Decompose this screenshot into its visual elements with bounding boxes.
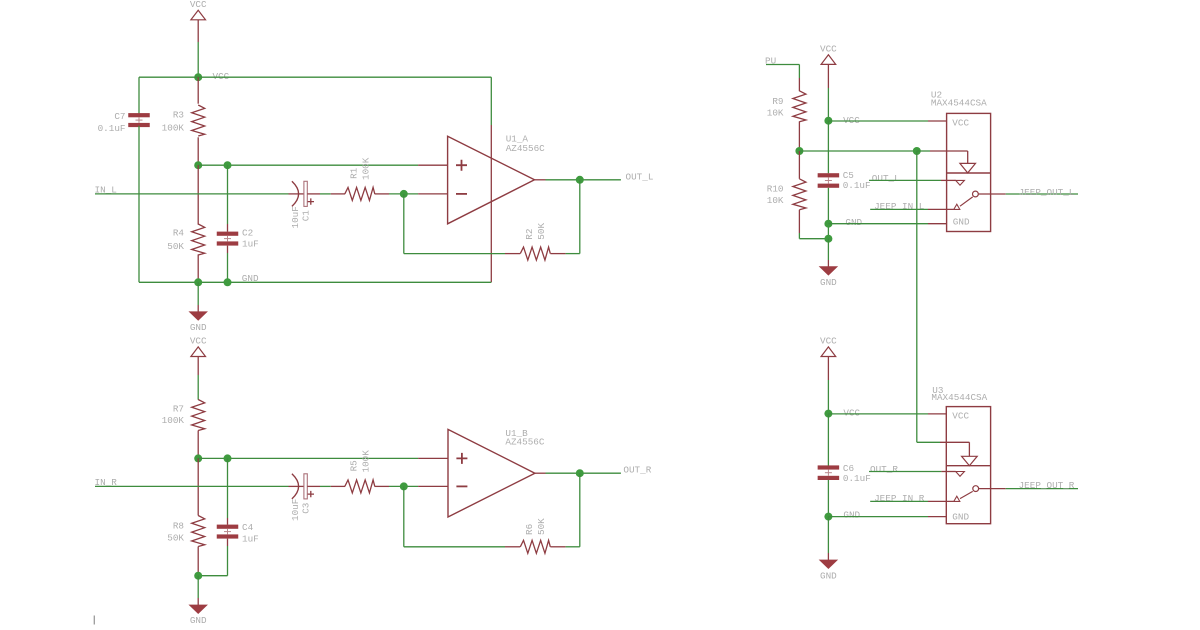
svg-text:GND: GND	[190, 322, 207, 333]
svg-text:OUT_L: OUT_L	[626, 171, 654, 182]
svg-text:GND: GND	[190, 615, 207, 626]
svg-text:VCC: VCC	[843, 407, 860, 418]
wire IN_L	[95, 193, 289, 195]
resistor R2	[505, 253, 520, 255]
wire control net	[799, 150, 916, 152]
resistor R8	[197, 458, 199, 515]
resistor R1	[331, 193, 345, 195]
resistor R6	[505, 546, 520, 548]
node R7/R8 junction	[194, 454, 202, 462]
wire C5 to GND junction	[827, 188, 829, 239]
wire rail to C5	[827, 121, 829, 174]
svg-text:R5: R5	[348, 460, 359, 471]
wire VCC top rail	[139, 76, 491, 78]
svg-text:R6: R6	[524, 524, 535, 535]
svg-text:100K: 100K	[162, 415, 185, 426]
svg-text:10K: 10K	[767, 108, 784, 119]
node GND junction B	[194, 572, 202, 580]
svg-text:C3: C3	[301, 503, 312, 514]
svg-text:100K: 100K	[162, 123, 185, 134]
wire V+ feed	[490, 77, 492, 125]
svg-text:C4: C4	[242, 522, 254, 533]
svg-text:C2: C2	[242, 228, 253, 239]
node GND pin junction U2	[824, 220, 832, 228]
svg-text:VCC: VCC	[952, 411, 969, 422]
cursor mark	[93, 616, 95, 625]
wire to non-inverting input B	[198, 457, 418, 459]
svg-text:R3: R3	[173, 109, 184, 120]
node C4 top junction	[224, 454, 232, 462]
svg-text:JEEP_OUT_R: JEEP_OUT_R	[1019, 480, 1075, 491]
pin arrow OUT_L	[956, 180, 965, 185]
wire PU to R9	[766, 64, 799, 66]
svg-text:50K: 50K	[167, 241, 184, 252]
wire VCC pin U3	[828, 413, 928, 415]
capacitor C5	[818, 173, 840, 177]
svg-text:0.1uF: 0.1uF	[843, 180, 871, 191]
node output junction B	[576, 469, 584, 477]
svg-text:GND: GND	[952, 512, 969, 523]
wire feedback bottom B	[404, 546, 505, 548]
svg-text:R9: R9	[772, 96, 783, 107]
svg-text:1uF: 1uF	[242, 239, 259, 250]
svg-text:MAX4544CSA: MAX4544CSA	[931, 392, 987, 403]
wire control bus down	[916, 151, 918, 442]
control arrow U3	[962, 456, 978, 465]
capacitor C7	[128, 113, 150, 117]
wire VCC rail U2	[827, 88, 829, 121]
switch throw arrow U2	[954, 204, 960, 209]
svg-text:JEEP_OUT_L: JEEP_OUT_L	[1019, 187, 1075, 198]
svg-text:0.1uF: 0.1uF	[843, 473, 871, 484]
resistor R7	[192, 400, 205, 431]
svg-text:R8: R8	[173, 521, 184, 532]
IC U3 box	[946, 407, 990, 524]
wire left rail upper	[138, 77, 140, 114]
ground symbol (lower left circuit)	[197, 576, 199, 598]
wire control into U2	[917, 150, 930, 152]
op-amp U1_A	[418, 193, 448, 195]
IC U2 box	[947, 113, 991, 231]
wire feedback down B	[403, 486, 405, 546]
wire to non-inverting input	[198, 164, 418, 166]
svg-text:1uF: 1uF	[242, 533, 259, 544]
svg-text:GND: GND	[820, 277, 837, 288]
capacitor C3 (polarized)	[289, 485, 304, 487]
svg-text:R7: R7	[173, 404, 184, 415]
svg-text:10K: 10K	[767, 195, 784, 206]
resistor R10	[798, 151, 800, 179]
wire GND bottom rail	[139, 281, 491, 283]
svg-text:GND: GND	[843, 509, 860, 520]
wire output OUT_L	[535, 179, 546, 181]
svg-text:R10: R10	[767, 184, 784, 195]
node output junction	[576, 176, 584, 184]
ground symbol (upper left circuit)	[197, 282, 199, 305]
wire JEEP_IN_R	[870, 500, 928, 502]
resistor R9	[798, 78, 800, 91]
svg-text:VCC: VCC	[190, 335, 207, 346]
wire OUT_R pin	[869, 471, 941, 473]
svg-text:R4: R4	[173, 228, 185, 239]
node control junction	[913, 147, 921, 155]
capacitor C1 (polarized)	[289, 193, 304, 195]
wire C6 to GND junction U3	[827, 480, 829, 517]
capacitor C6	[818, 465, 840, 469]
wire IN_R	[95, 485, 289, 487]
op-amp U1_B	[418, 485, 448, 487]
node GND pin junction U3	[824, 513, 832, 521]
wire control into U3	[917, 441, 940, 443]
svg-text:100K: 100K	[360, 450, 371, 473]
wire GND pin U3	[828, 516, 928, 518]
node VCC pin junction U3	[824, 410, 832, 418]
wire JEEP_IN_L	[870, 208, 928, 210]
svg-text:GND: GND	[845, 217, 862, 228]
capacitor C2	[227, 165, 229, 224]
ground symbol (U3)	[827, 517, 829, 553]
node inverting input junction B	[400, 482, 408, 490]
svg-text:MAX4544CSA: MAX4544CSA	[931, 98, 987, 109]
switch throw arrow U3	[954, 496, 960, 501]
svg-text:AZ4556C: AZ4556C	[506, 143, 545, 154]
node inverting input junction	[400, 190, 408, 198]
svg-text:GND: GND	[953, 217, 970, 228]
wire VCC pin U2	[828, 120, 928, 122]
svg-text:JEEP_IN_R: JEEP_IN_R	[874, 493, 925, 504]
svg-text:50K: 50K	[536, 518, 547, 535]
wire C3 to R5	[307, 485, 320, 487]
svg-text:GND: GND	[242, 273, 259, 284]
wire VCC stem	[197, 375, 199, 400]
svg-text:AZ4556C: AZ4556C	[505, 437, 544, 448]
resistor R3	[197, 77, 199, 104]
svg-text:10uF: 10uF	[290, 499, 301, 521]
wire rail to C6	[827, 414, 829, 466]
wire left rail lower	[138, 126, 140, 283]
wire feedback to output B	[566, 546, 580, 548]
svg-text:VCC: VCC	[190, 0, 207, 10]
node C2 top junction	[224, 161, 232, 169]
node GND rail junction 2	[224, 278, 232, 286]
control arrow U2	[960, 163, 976, 173]
wire R10 to rail	[798, 233, 800, 239]
node VCC pin junction U2	[824, 117, 832, 125]
wire R5 to inverting input B	[389, 485, 418, 487]
svg-text:50K: 50K	[167, 533, 184, 544]
svg-text:10uF: 10uF	[290, 206, 301, 228]
wire JEEP_OUT_L	[978, 193, 1005, 195]
wire C1 to R1	[307, 193, 320, 195]
switch pole circle U2	[973, 191, 979, 197]
svg-text:VCC: VCC	[952, 118, 969, 129]
svg-text:C7: C7	[114, 111, 125, 122]
resistor R5	[331, 485, 345, 487]
wire output OUT_R	[535, 472, 546, 474]
wire GND pin U2	[828, 223, 928, 225]
svg-text:OUT_R: OUT_R	[870, 464, 898, 475]
svg-text:100K: 100K	[360, 157, 371, 180]
node VCC rail junction	[194, 73, 202, 81]
svg-text:C1: C1	[301, 210, 312, 222]
svg-text:R2: R2	[524, 229, 535, 240]
svg-text:VCC: VCC	[820, 43, 837, 54]
svg-text:OUT_R: OUT_R	[623, 464, 651, 475]
wire feedback bottom	[404, 253, 505, 255]
svg-text:R1: R1	[348, 167, 359, 179]
wire feedback down	[403, 194, 405, 254]
svg-text:0.1uF: 0.1uF	[98, 123, 126, 134]
node R9/R10 junction	[798, 147, 800, 151]
pin arrow OUT_R	[956, 472, 965, 477]
svg-text:GND: GND	[820, 570, 837, 581]
svg-text:VCC: VCC	[213, 71, 230, 82]
wire VCC rail U3	[827, 380, 829, 414]
svg-text:50K: 50K	[536, 223, 547, 240]
wire feedback to output	[566, 253, 580, 255]
wire JEEP_OUT_R	[979, 488, 1006, 490]
svg-text:OUT_L: OUT_L	[872, 173, 900, 184]
wire VCC stem to rail	[197, 42, 199, 77]
switch pole circle U3	[973, 486, 979, 492]
ground symbol (U2)	[827, 239, 829, 260]
node R10 rail junction	[824, 235, 832, 243]
node GND rail junction 1	[194, 278, 202, 286]
resistor R4	[197, 165, 199, 224]
svg-text:VCC: VCC	[820, 335, 837, 346]
wire OUT_L pin	[869, 179, 941, 181]
capacitor C4	[227, 458, 229, 518]
node R3/R4 junction	[194, 161, 202, 169]
wire R1 to inverting input	[389, 193, 418, 195]
